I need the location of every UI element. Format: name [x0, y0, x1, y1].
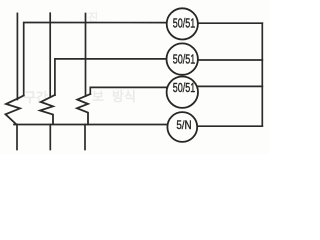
relay U2 50/51 circle [167, 43, 198, 74]
wire relay2 right to bus [198, 59, 262, 61]
relay U3 50/51 circle [167, 77, 198, 108]
relay U1 50/51 circle [167, 8, 198, 39]
wire relay3 right to bus [198, 85, 262, 87]
CT2 return lead below neutral [49, 125, 51, 150]
wire 3 (phase C to relay 3) [90, 87, 166, 94]
relay U4 5/N circle [167, 112, 197, 142]
wire relay4 right to bus [197, 125, 262, 127]
svg-text:5/N: 5/N [176, 118, 191, 132]
right return bus [261, 23, 263, 126]
wire relay1 right to bus [198, 22, 262, 24]
svg-text:50/51: 50/51 [173, 80, 196, 95]
wire 4 neutral wire to relay 4 [14, 124, 167, 126]
phase line B [49, 13, 51, 97]
svg-text:50/51: 50/51 [173, 16, 196, 31]
CT3 secondary winding zigzag [77, 94, 90, 124]
CT2 secondary winding zigzag [40, 95, 55, 124]
CT1 return lead below neutral [16, 125, 18, 150]
svg-text:50/51: 50/51 [173, 51, 196, 66]
phase line A [16, 13, 18, 99]
svg-text:보: 보 [92, 89, 104, 104]
CT3 return lead below neutral [84, 125, 86, 150]
watermark bleed-through text [24, 10, 136, 105]
CT1 secondary winding zigzag [6, 96, 24, 125]
wire 2 (phase B to relay 2) [55, 59, 167, 95]
wire 1 (phase A to relay 1) [24, 23, 167, 96]
svg-text:방식: 방식 [112, 89, 136, 104]
phase line C [85, 14, 87, 97]
